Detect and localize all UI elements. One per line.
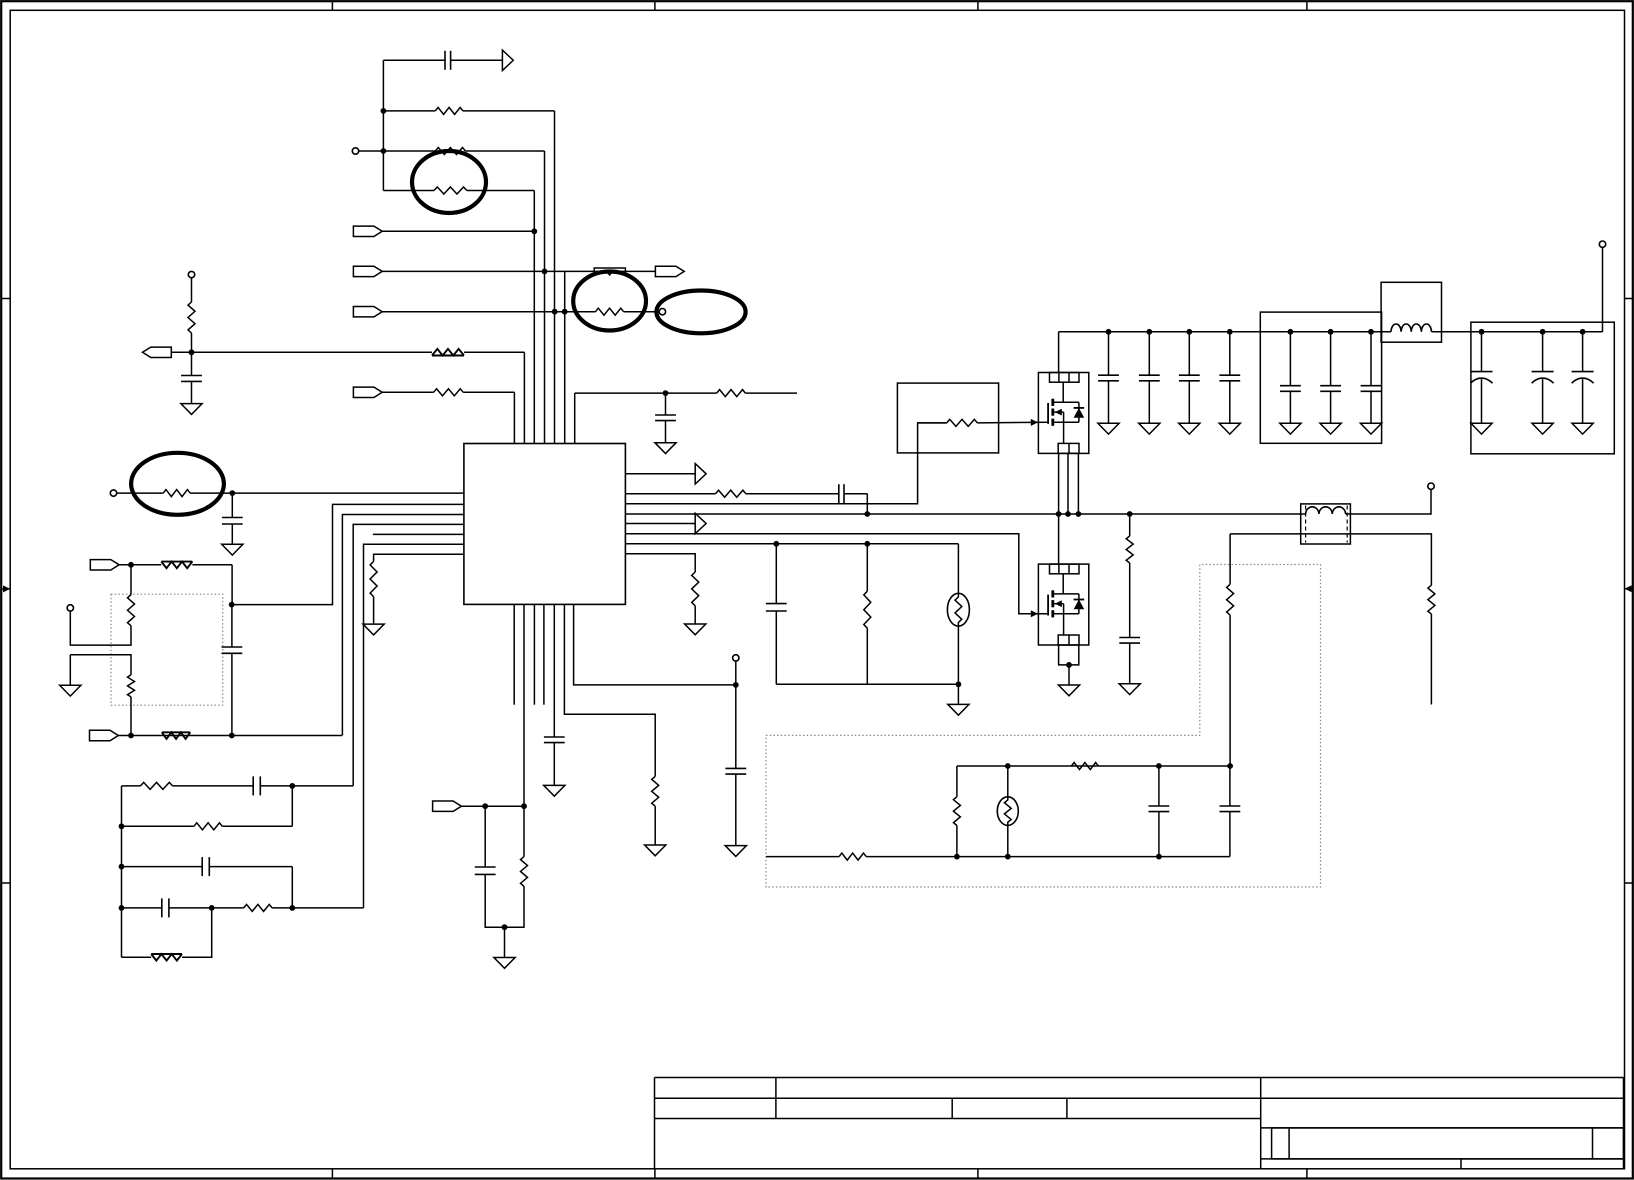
wire U1 bottom stub 3 bbox=[543, 604, 545, 704]
wire bbox=[292, 785, 353, 787]
wire to Q1 gate bbox=[977, 421, 1048, 424]
capacitor C13 bbox=[775, 544, 777, 604]
junction bbox=[1288, 329, 1294, 335]
ground bbox=[1119, 684, 1140, 695]
wire Q1 drain bbox=[1058, 332, 1060, 373]
wire bbox=[191, 278, 193, 302]
wire bbox=[382, 311, 595, 313]
wire U1 pin up bbox=[574, 393, 576, 443]
wire bbox=[464, 351, 524, 353]
junction bbox=[1066, 662, 1072, 668]
junction bbox=[1328, 329, 1334, 335]
wire bbox=[190, 492, 232, 494]
thermistor RT2 bbox=[997, 797, 1018, 826]
wire bbox=[463, 110, 555, 112]
wire bbox=[122, 785, 141, 787]
junction bbox=[209, 905, 215, 911]
terminal XTAL in bbox=[67, 605, 73, 611]
wire bbox=[956, 766, 958, 797]
wire bbox=[462, 805, 525, 807]
highlight ellipse around R3 bbox=[412, 151, 486, 213]
ground bbox=[1280, 423, 1301, 434]
wire U1 right pin 7 bbox=[625, 543, 958, 545]
wire bbox=[231, 565, 233, 605]
ground bbox=[1471, 423, 1492, 434]
junction bbox=[864, 511, 870, 517]
ground bbox=[222, 544, 243, 555]
capacitor C4 bbox=[231, 493, 233, 517]
capacitor C17 bbox=[1229, 332, 1231, 375]
component U2 (gate drive block) bbox=[897, 383, 998, 453]
terminal input bbox=[352, 148, 358, 154]
wire VOUT bbox=[1346, 489, 1431, 514]
resistor R15 bbox=[141, 782, 173, 789]
wire stub bbox=[1430, 614, 1432, 704]
junction bbox=[1580, 329, 1586, 335]
wire bbox=[1068, 665, 1070, 685]
resistor R29 bbox=[1071, 763, 1098, 770]
terminal input bbox=[188, 271, 194, 277]
junction bbox=[1227, 763, 1233, 769]
net flag input 2 bbox=[353, 266, 382, 276]
capacitor C6 bbox=[173, 785, 254, 787]
wire U1 right pin 6 to Q2 gate bbox=[625, 534, 1048, 614]
terminal VOUT bbox=[1428, 483, 1434, 489]
signal arrow out bbox=[695, 464, 706, 484]
junction bbox=[552, 309, 558, 315]
wire bbox=[69, 655, 71, 686]
signal arrow out bbox=[695, 513, 706, 533]
resistor R5 bbox=[188, 302, 195, 333]
resistor R13 bbox=[128, 675, 135, 697]
ground bbox=[725, 846, 746, 857]
ground bbox=[181, 404, 202, 415]
ground bbox=[685, 624, 706, 635]
ground bbox=[1098, 423, 1119, 434]
ground bbox=[494, 958, 515, 969]
wire bbox=[866, 494, 868, 514]
junction bbox=[119, 864, 125, 870]
wire bbox=[467, 190, 535, 192]
junction bbox=[229, 602, 235, 608]
junction bbox=[1056, 511, 1062, 517]
junction bbox=[956, 681, 962, 687]
ground bbox=[1532, 423, 1553, 434]
resistor R27 bbox=[1227, 584, 1234, 615]
capacitor C22 (electrolytic) bbox=[1542, 332, 1544, 372]
ground bbox=[1572, 423, 1593, 434]
capacitor C18 bbox=[1289, 332, 1291, 386]
junction bbox=[531, 228, 537, 234]
capacitor C1 bbox=[383, 59, 445, 61]
ground bbox=[1139, 423, 1160, 434]
resistor R20 bbox=[652, 776, 659, 806]
component module (input cap bank) bbox=[1260, 312, 1381, 443]
wire U1 right pin 5 bbox=[625, 523, 695, 525]
capacitor C26 bbox=[1229, 766, 1231, 806]
highlight ellipse around R4 bbox=[573, 272, 646, 331]
wire Q1 source 3 bbox=[1077, 453, 1079, 514]
wire U1 right pin 3 to gate driver bbox=[625, 423, 946, 504]
junction bbox=[381, 148, 387, 154]
wire to U1 pin bbox=[533, 191, 535, 444]
ground bbox=[544, 785, 565, 796]
wire U1 right pin 1 bbox=[625, 473, 695, 475]
wire bbox=[776, 683, 958, 685]
wire bbox=[1129, 563, 1131, 638]
wire to U1 pin bbox=[544, 151, 546, 444]
junction bbox=[119, 823, 125, 829]
wire bbox=[191, 333, 193, 352]
junction bbox=[954, 854, 960, 860]
wire node fb top bbox=[957, 765, 1230, 767]
wire U1 right pin 4 (phase node) bbox=[625, 513, 1305, 515]
component module (output inductor) bbox=[1301, 504, 1351, 544]
feedback module dotted outline bbox=[766, 565, 1321, 888]
wire Q1 source 1 bbox=[1058, 453, 1060, 514]
resistor R11 bbox=[161, 562, 192, 569]
resistor R1 bbox=[435, 107, 463, 114]
inductor L2 bbox=[1306, 507, 1346, 514]
wire to VIN terminal bbox=[1602, 247, 1604, 331]
capacitor C12 bbox=[746, 493, 839, 495]
wire bbox=[118, 735, 342, 737]
gate pin arrow bbox=[1031, 610, 1038, 617]
wire bbox=[745, 392, 797, 394]
component JP1 (jumper block) bbox=[594, 268, 625, 272]
wire bbox=[291, 786, 293, 826]
wire bbox=[463, 391, 514, 393]
wire bbox=[119, 564, 161, 566]
op-amp U1 (main controller IC) bbox=[464, 444, 626, 605]
capacitor C20 bbox=[1370, 332, 1372, 386]
wire bbox=[212, 907, 244, 909]
wire node vertical bbox=[121, 786, 123, 957]
wire bbox=[1229, 615, 1231, 766]
ground bbox=[363, 624, 384, 635]
resistor R22 bbox=[864, 591, 871, 628]
junction bbox=[502, 924, 508, 930]
junction bbox=[119, 905, 125, 911]
ground bbox=[1219, 423, 1240, 434]
wire bbox=[192, 564, 232, 566]
junction bbox=[1106, 329, 1112, 335]
highlight ellipse (empty) bbox=[656, 291, 745, 334]
terminal test point bbox=[659, 309, 665, 315]
resistor R4 bbox=[596, 308, 624, 315]
wire bbox=[866, 856, 1230, 858]
wire bbox=[1007, 825, 1009, 856]
resistor R30 bbox=[953, 797, 960, 826]
junction bbox=[521, 803, 527, 809]
junction bbox=[733, 682, 739, 688]
wire bbox=[957, 544, 959, 594]
wire bbox=[866, 544, 868, 591]
wire U1 bottom pin bbox=[574, 604, 736, 685]
wire U1 right pin 2 bbox=[625, 493, 715, 495]
transistor Q1 (power MOSFET with body diode) bbox=[1038, 373, 1088, 454]
wire bbox=[130, 697, 132, 736]
thermistor RT1 bbox=[947, 593, 969, 626]
resistor R7 bbox=[434, 389, 464, 396]
wire bbox=[957, 626, 959, 704]
wire bbox=[373, 597, 375, 625]
junction bbox=[381, 108, 387, 114]
crystal module dotted outline bbox=[111, 594, 223, 705]
junction bbox=[1005, 763, 1011, 769]
wire bbox=[291, 867, 293, 908]
resistor R8 bbox=[717, 390, 746, 397]
wire U1 bottom pin bbox=[523, 604, 525, 856]
wire bbox=[694, 606, 696, 624]
wire U1 bottom pin bbox=[564, 604, 655, 776]
capacitor C5 bbox=[231, 605, 233, 647]
wire to U1 pin bbox=[564, 271, 566, 443]
junction bbox=[1156, 763, 1162, 769]
capacitor C11 bbox=[735, 685, 737, 769]
wire Q2 source tie bbox=[1059, 645, 1079, 665]
wire bbox=[122, 825, 194, 827]
terminal VIN bbox=[1599, 241, 1605, 247]
wire U1 left pin 2 bbox=[232, 504, 464, 604]
capacitor C7 bbox=[122, 866, 203, 868]
capacitor C3 bbox=[665, 393, 667, 415]
wire bbox=[575, 392, 717, 394]
ground bbox=[1360, 423, 1381, 434]
ground bbox=[1320, 423, 1341, 434]
wire feedback tap bbox=[1230, 534, 1431, 585]
wire bbox=[171, 351, 432, 353]
wire bbox=[735, 661, 737, 685]
junction bbox=[542, 269, 548, 275]
wire to U1 pin bbox=[513, 392, 515, 443]
net flag output bbox=[655, 266, 684, 276]
capacitor C14 bbox=[1108, 332, 1110, 375]
wire bbox=[382, 270, 655, 272]
capacitor C23 (electrolytic) bbox=[1582, 332, 1584, 372]
capacitor C2 bbox=[191, 352, 193, 375]
junction bbox=[289, 783, 295, 789]
wire node fb bottom bbox=[766, 856, 839, 858]
wire to U1 pin bbox=[554, 111, 556, 444]
ground bbox=[948, 704, 969, 715]
wire bbox=[383, 190, 434, 192]
wire bbox=[485, 874, 524, 927]
wire bbox=[1471, 331, 1603, 333]
terminal input bbox=[110, 490, 116, 496]
capacitor C16 bbox=[1188, 332, 1190, 375]
capacitor C24 bbox=[1119, 637, 1140, 639]
shield dashed lines bbox=[1305, 506, 1307, 543]
junction bbox=[189, 349, 195, 355]
wire VIN rail bbox=[1059, 331, 1391, 333]
resistor R14 bbox=[162, 732, 191, 739]
capacitor C10 bbox=[553, 604, 555, 737]
wire bbox=[383, 110, 435, 112]
wire U1 left pin 7 bbox=[374, 554, 464, 561]
wire bbox=[382, 230, 534, 232]
highlight ellipse around R9 bbox=[131, 453, 224, 515]
wire bbox=[130, 565, 132, 595]
wire bbox=[117, 492, 164, 494]
junction bbox=[1146, 329, 1152, 335]
junction bbox=[1065, 511, 1071, 517]
capacitor C25 bbox=[1158, 766, 1160, 806]
ground bbox=[655, 443, 676, 454]
wire bbox=[359, 150, 436, 152]
wire Q1 source 2 bbox=[1067, 453, 1069, 514]
resistor R26 bbox=[1428, 585, 1435, 614]
resistor R6 bbox=[432, 349, 464, 356]
wire bbox=[1007, 766, 1009, 797]
wire bbox=[956, 826, 958, 857]
resistor R2 bbox=[435, 148, 465, 155]
ground bbox=[1058, 685, 1079, 696]
resistor R3 bbox=[434, 187, 467, 194]
capacitor C19 bbox=[1330, 332, 1332, 386]
resistor R28 bbox=[839, 853, 866, 860]
wire U1 left pin 3 bbox=[342, 515, 464, 736]
junction bbox=[289, 905, 295, 911]
resistor R18 bbox=[151, 954, 182, 961]
resistor R21 bbox=[716, 490, 746, 497]
wire bbox=[222, 825, 292, 827]
junction bbox=[1368, 329, 1374, 335]
wire bbox=[70, 611, 131, 645]
terminal sense bbox=[733, 655, 739, 661]
junction bbox=[1156, 854, 1162, 860]
wire bbox=[866, 628, 868, 684]
junction bbox=[1540, 329, 1546, 335]
junction bbox=[1186, 329, 1192, 335]
ground bbox=[1179, 423, 1200, 434]
junction bbox=[229, 733, 235, 739]
junction bbox=[773, 541, 779, 547]
resistor R24 bbox=[947, 419, 978, 426]
wire bbox=[624, 311, 660, 313]
wire U1 bottom stub 1 bbox=[513, 604, 515, 704]
component module (filter inductor) bbox=[1381, 282, 1441, 342]
wire to U1 pin bbox=[523, 352, 525, 443]
wire node bus vertical bbox=[382, 60, 384, 190]
resistor R19 bbox=[521, 857, 528, 887]
junction bbox=[482, 803, 488, 809]
net flag comp bbox=[433, 801, 462, 811]
net flag XTAL2 bbox=[90, 730, 119, 740]
junction bbox=[1076, 511, 1082, 517]
wire U1 left pin 5 (stub) bbox=[373, 533, 464, 535]
wire U1 right pin 8 bbox=[625, 554, 695, 572]
resistor R17 bbox=[244, 904, 272, 911]
capacitor C21 (electrolytic) bbox=[1481, 332, 1483, 372]
wire bbox=[1432, 331, 1471, 333]
wire U1 bottom stub 2 bbox=[533, 604, 535, 704]
signal arrow out bbox=[502, 50, 513, 70]
wire bbox=[272, 907, 363, 909]
capacitor C9 bbox=[484, 873, 486, 875]
net flag input 1 bbox=[353, 226, 382, 236]
junction bbox=[229, 490, 235, 496]
resistor R16 bbox=[194, 823, 222, 830]
wire bbox=[382, 391, 434, 393]
ground bbox=[645, 845, 666, 856]
junction bbox=[128, 562, 134, 568]
wire bbox=[1229, 534, 1231, 584]
gate pin arrow bbox=[1031, 419, 1038, 426]
resistor R12 bbox=[128, 595, 135, 626]
resistor R10 bbox=[370, 561, 377, 596]
junction bbox=[128, 733, 134, 739]
wire U1 left pin 6 bbox=[364, 544, 464, 908]
wire bbox=[70, 655, 131, 675]
wire bbox=[654, 806, 656, 845]
net flag input 3 bbox=[353, 307, 382, 317]
wire bbox=[466, 150, 545, 152]
wire bbox=[182, 908, 212, 957]
resistor R25 bbox=[1126, 536, 1133, 563]
net flag output left bbox=[143, 347, 172, 357]
title block bbox=[655, 1077, 1624, 1079]
net flag input 4 bbox=[353, 387, 382, 397]
wire Q2 drain bbox=[1058, 514, 1060, 564]
junction bbox=[663, 390, 669, 396]
wire bbox=[1129, 514, 1131, 536]
capacitor C15 bbox=[1148, 332, 1150, 375]
junction bbox=[1479, 329, 1485, 335]
wire bbox=[918, 422, 947, 424]
junction bbox=[1005, 854, 1011, 860]
ground bbox=[60, 685, 81, 696]
net flag XTAL1 bbox=[90, 560, 119, 570]
wire U1 left pin 4 bbox=[353, 524, 464, 786]
resistor R23 bbox=[692, 572, 699, 606]
junction bbox=[1227, 329, 1233, 335]
inductor L1 bbox=[1391, 324, 1431, 332]
component module (bulk cap bank) bbox=[1471, 322, 1614, 454]
wire bbox=[122, 956, 152, 958]
wire bbox=[504, 927, 506, 957]
junction bbox=[562, 309, 568, 315]
junction bbox=[1127, 511, 1133, 517]
resistor R9 bbox=[163, 490, 190, 497]
wire U1 left pin 1 bbox=[232, 492, 464, 494]
junction bbox=[864, 541, 870, 547]
capacitor C8 bbox=[122, 907, 162, 909]
transistor Q2 (power MOSFET with body diode) bbox=[1038, 564, 1088, 645]
